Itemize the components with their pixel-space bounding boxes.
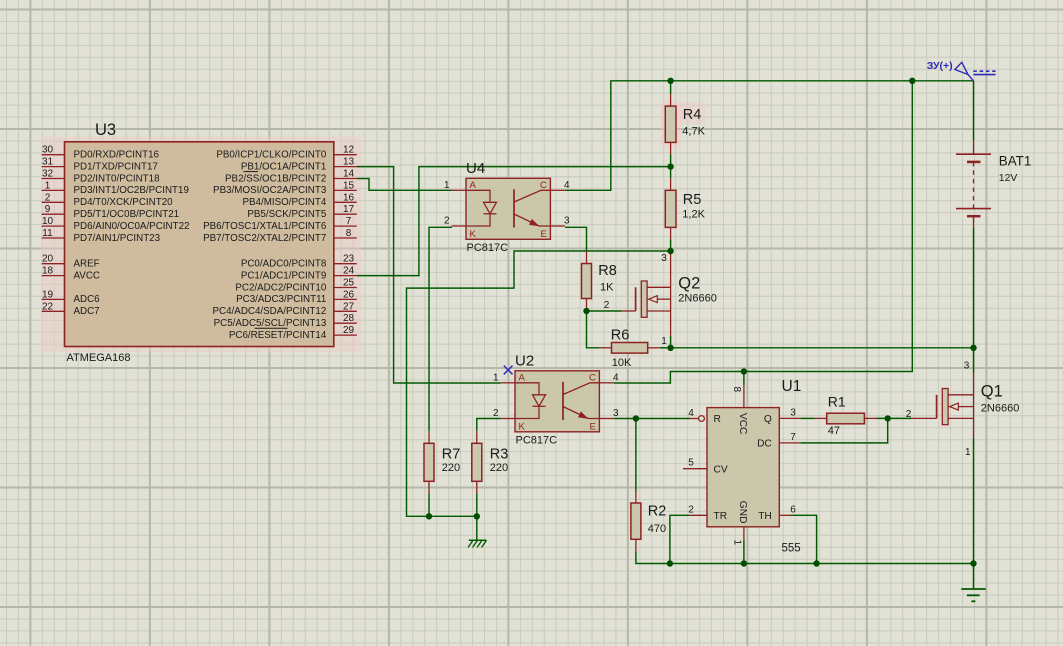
svg-text:32: 32 — [42, 169, 54, 180]
svg-text:PC5/ADC5/SCL/PCINT13: PC5/ADC5/SCL/PCINT13 — [214, 318, 327, 329]
svg-text:28: 28 — [343, 313, 355, 324]
svg-text:7: 7 — [346, 216, 352, 227]
svg-text:27: 27 — [343, 301, 355, 312]
svg-text:PC6/RESET/PCINT14: PC6/RESET/PCINT14 — [229, 330, 327, 341]
svg-text:2: 2 — [45, 192, 51, 203]
svg-text:A: A — [470, 180, 477, 191]
svg-text:1: 1 — [732, 540, 743, 546]
svg-text:R: R — [714, 414, 721, 425]
svg-text:3: 3 — [564, 216, 570, 227]
svg-text:13: 13 — [343, 157, 355, 168]
svg-text:3: 3 — [964, 361, 970, 372]
svg-text:R4: R4 — [683, 107, 702, 123]
svg-text:2N6660: 2N6660 — [981, 402, 1020, 414]
svg-text:1: 1 — [45, 180, 51, 191]
svg-text:15: 15 — [343, 180, 355, 191]
svg-text:PB3/MOSI/OC2A/PCINT3: PB3/MOSI/OC2A/PCINT3 — [213, 185, 327, 196]
svg-text:14: 14 — [343, 169, 355, 180]
svg-text:Q1: Q1 — [981, 383, 1003, 401]
svg-text:AREF: AREF — [74, 259, 100, 270]
svg-text:2: 2 — [493, 408, 499, 419]
svg-text:TR: TR — [714, 511, 728, 522]
svg-text:470: 470 — [648, 523, 666, 535]
svg-text:19: 19 — [42, 289, 54, 300]
svg-text:4,7K: 4,7K — [682, 126, 705, 138]
svg-text:R2: R2 — [648, 504, 667, 520]
svg-text:2: 2 — [906, 409, 912, 420]
svg-text:1: 1 — [965, 447, 971, 458]
svg-text:PB1/OC1A/PCINT1: PB1/OC1A/PCINT1 — [241, 161, 326, 172]
svg-text:23: 23 — [343, 254, 355, 265]
svg-text:3: 3 — [790, 407, 796, 418]
svg-text:Q2: Q2 — [678, 275, 700, 293]
svg-text:ATMEGA168: ATMEGA168 — [67, 352, 131, 364]
svg-text:PC817C: PC817C — [467, 242, 509, 254]
svg-text:7: 7 — [790, 432, 796, 443]
svg-text:9: 9 — [45, 204, 51, 215]
svg-text:U1: U1 — [782, 378, 802, 395]
svg-text:4: 4 — [564, 180, 570, 191]
svg-text:PB2/SS/OC1B/PCINT2: PB2/SS/OC1B/PCINT2 — [225, 173, 326, 184]
svg-text:11: 11 — [42, 228, 53, 239]
svg-text:6: 6 — [790, 504, 796, 515]
svg-text:17: 17 — [343, 204, 355, 215]
svg-text:20: 20 — [42, 254, 54, 265]
svg-text:10K: 10K — [612, 357, 632, 369]
svg-text:1: 1 — [493, 372, 499, 383]
svg-text:PB6/TOSC1/XTAL1/PCINT6: PB6/TOSC1/XTAL1/PCINT6 — [203, 221, 327, 232]
svg-text:PC2/ADC2/PCINT10: PC2/ADC2/PCINT10 — [235, 282, 326, 293]
svg-text:PB0/ICP1/CLKO/PCINT0: PB0/ICP1/CLKO/PCINT0 — [216, 150, 327, 161]
svg-text:PB7/TOSC2/XTAL2/PCINT7: PB7/TOSC2/XTAL2/PCINT7 — [203, 233, 326, 244]
svg-text:PC817C: PC817C — [516, 435, 558, 447]
svg-text:R5: R5 — [683, 192, 702, 208]
svg-text:ADC6: ADC6 — [74, 294, 101, 305]
svg-text:555: 555 — [782, 543, 801, 555]
svg-text:1: 1 — [444, 180, 450, 191]
svg-text:22: 22 — [42, 301, 54, 312]
svg-text:PD6/AIN0/OC0A/PCINT22: PD6/AIN0/OC0A/PCINT22 — [74, 221, 190, 232]
svg-text:R6: R6 — [611, 327, 630, 343]
svg-text:PD0/RXD/PCINT16: PD0/RXD/PCINT16 — [74, 150, 160, 161]
svg-text:5: 5 — [688, 458, 694, 469]
svg-text:47: 47 — [828, 425, 840, 437]
svg-text:PD3/INT1/OC2B/PCINT19: PD3/INT1/OC2B/PCINT19 — [74, 185, 189, 196]
svg-text:U4: U4 — [466, 160, 485, 177]
svg-text:PD5/T1/OC0B/PCINT21: PD5/T1/OC0B/PCINT21 — [74, 209, 180, 220]
svg-text:2: 2 — [604, 300, 610, 311]
svg-text:24: 24 — [343, 266, 355, 277]
svg-text:K: K — [470, 229, 477, 240]
svg-text:R8: R8 — [598, 263, 617, 279]
svg-text:16: 16 — [343, 192, 355, 203]
svg-text:BAT1: BAT1 — [999, 154, 1032, 169]
svg-text:26: 26 — [343, 289, 355, 300]
svg-text:K: K — [519, 421, 526, 432]
svg-text:GND: GND — [737, 501, 748, 524]
svg-text:VCC: VCC — [737, 413, 748, 435]
svg-text:TH: TH — [758, 511, 772, 522]
svg-text:E: E — [590, 421, 596, 432]
svg-text:12V: 12V — [999, 173, 1018, 184]
svg-text:220: 220 — [442, 462, 460, 474]
svg-text:220: 220 — [490, 462, 508, 474]
svg-text:PD1/TXD/PCINT17: PD1/TXD/PCINT17 — [74, 161, 158, 172]
svg-text:DC: DC — [757, 439, 772, 450]
svg-text:U3: U3 — [95, 121, 116, 139]
svg-text:3: 3 — [661, 253, 667, 264]
svg-text:30: 30 — [42, 145, 54, 156]
svg-text:PC0/ADC0/PCINT8: PC0/ADC0/PCINT8 — [241, 259, 327, 270]
svg-text:A: A — [519, 373, 526, 384]
svg-text:31: 31 — [42, 157, 54, 168]
svg-text:1K: 1K — [600, 281, 614, 293]
svg-text:ADC7: ADC7 — [74, 306, 100, 317]
svg-text:R7: R7 — [442, 446, 461, 462]
svg-text:25: 25 — [343, 278, 355, 289]
svg-text:4: 4 — [688, 408, 694, 419]
svg-text:PC4/ADC4/SDA/PCINT12: PC4/ADC4/SDA/PCINT12 — [213, 306, 327, 317]
svg-text:CV: CV — [714, 464, 728, 475]
svg-text:18: 18 — [42, 266, 54, 277]
svg-text:R3: R3 — [490, 446, 509, 462]
svg-text:PD7/AIN1/PCINT23: PD7/AIN1/PCINT23 — [74, 233, 161, 244]
svg-text:R1: R1 — [828, 394, 846, 410]
svg-text:1,2K: 1,2K — [682, 209, 705, 221]
svg-text:29: 29 — [343, 325, 355, 336]
svg-text:C: C — [540, 180, 547, 191]
svg-text:2: 2 — [444, 216, 450, 227]
svg-text:PB4/MISO/PCINT4: PB4/MISO/PCINT4 — [242, 197, 326, 208]
svg-text:ЗУ(+): ЗУ(+) — [927, 60, 953, 72]
svg-text:E: E — [541, 229, 547, 240]
svg-text:4: 4 — [613, 372, 619, 383]
svg-text:10: 10 — [42, 216, 54, 227]
svg-text:PC1/ADC1/PCINT9: PC1/ADC1/PCINT9 — [241, 270, 326, 281]
svg-text:PB5/SCK/PCINT5: PB5/SCK/PCINT5 — [247, 209, 326, 220]
svg-text:1: 1 — [661, 336, 667, 347]
svg-text:12: 12 — [343, 145, 355, 156]
svg-text:8: 8 — [731, 387, 742, 393]
svg-text:C: C — [589, 373, 596, 384]
svg-text:PD4/T0/XCK/PCINT20: PD4/T0/XCK/PCINT20 — [74, 197, 174, 208]
svg-text:PC3/ADC3/PCINT11: PC3/ADC3/PCINT11 — [236, 294, 326, 305]
svg-text:2: 2 — [688, 504, 694, 515]
svg-text:Q: Q — [764, 414, 772, 425]
svg-text:PD2/INT0/PCINT18: PD2/INT0/PCINT18 — [74, 173, 161, 184]
svg-text:AVCC: AVCC — [74, 270, 101, 281]
svg-text:3: 3 — [613, 408, 619, 419]
svg-text:U2: U2 — [515, 353, 534, 370]
svg-text:2N6660: 2N6660 — [678, 293, 717, 305]
svg-text:8: 8 — [346, 228, 352, 239]
